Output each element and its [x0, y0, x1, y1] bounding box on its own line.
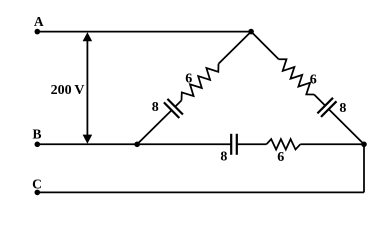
svg-text:6: 6 — [310, 72, 317, 87]
resistor 6 (B-C branch) — [266, 139, 300, 149]
svg-text:8: 8 — [339, 101, 346, 116]
wire: B-C branch between capacitor and resistor — [237, 143, 267, 145]
wire: line C — [37, 191, 364, 193]
wire: A-B branch upper segment — [219, 32, 252, 64]
capacitor 8 (A-C branch) — [317, 98, 336, 117]
wire: line B from terminal to bottom capacitor — [37, 143, 231, 145]
svg-text:A: A — [34, 14, 44, 29]
terminal dot A — [35, 29, 41, 35]
svg-text:C: C — [32, 176, 42, 191]
dimension arrow 200 V (double headed, A to B) — [83, 32, 93, 144]
wire: vertical from right node down to line C — [363, 144, 365, 192]
wire: line B from resistor to right node — [300, 143, 364, 145]
resistor 6 (A-C branch) — [279, 59, 314, 94]
terminal dot C — [35, 190, 41, 196]
svg-text:B: B — [32, 126, 41, 141]
node: top node on line A — [248, 29, 254, 35]
wire: A-C branch upper segment — [251, 32, 279, 60]
wire: A-C branch lower segment — [329, 109, 364, 144]
resistor 6 (A-B branch) — [182, 64, 219, 101]
svg-text:8: 8 — [152, 100, 159, 115]
wire: A-B branch lower segment — [137, 110, 172, 144]
wire: A-B branch between capacitor and resistor — [175, 100, 181, 106]
capacitor 8 (B-C branch, on line B) — [231, 134, 237, 155]
svg-text:6: 6 — [277, 150, 284, 165]
node: junction on line B (delta corner) — [134, 142, 140, 148]
capacitor 8 (A-B branch) — [164, 99, 183, 118]
terminal dot B — [35, 142, 41, 148]
node: right node (delta corner) — [361, 142, 367, 148]
svg-text:6: 6 — [185, 72, 192, 87]
svg-text:200 V: 200 V — [51, 83, 85, 98]
wire: A-C branch between resistor and capacitor — [314, 95, 325, 106]
svg-text:8: 8 — [220, 149, 227, 164]
wire: line A from terminal to top node — [37, 31, 251, 33]
